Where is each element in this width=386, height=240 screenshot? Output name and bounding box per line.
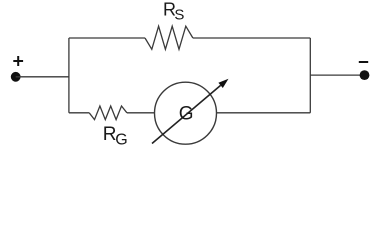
svg-text:G: G	[115, 132, 127, 149]
svg-text:G: G	[179, 104, 194, 125]
svg-text:S: S	[174, 6, 184, 23]
